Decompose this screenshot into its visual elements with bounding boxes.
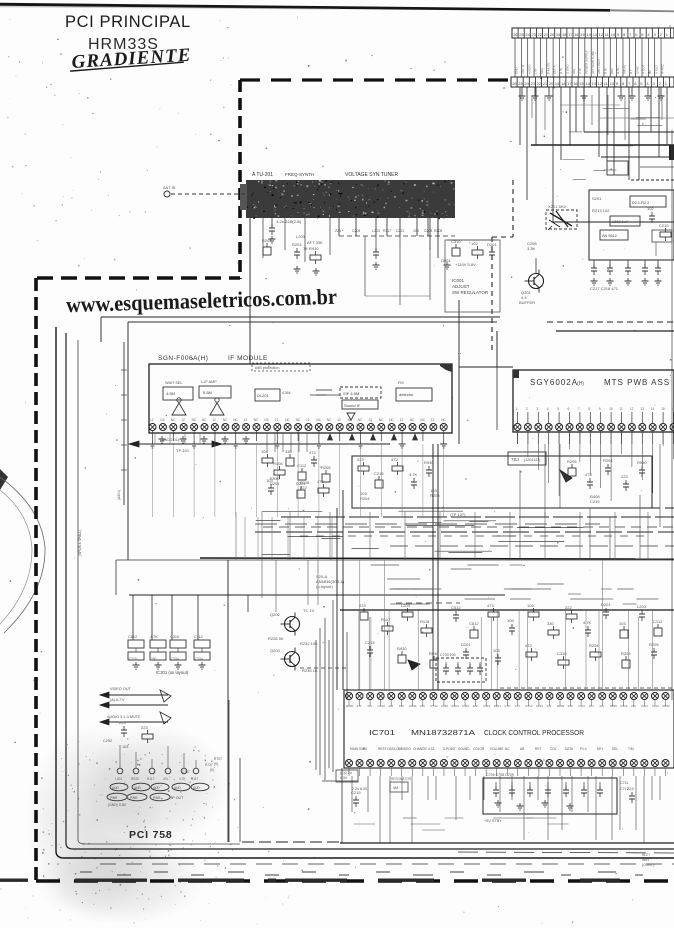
svg-text:COLOR: COLOR xyxy=(473,747,485,751)
svg-text:223: 223 xyxy=(359,603,366,608)
svg-text:VOLUME: VOLUME xyxy=(490,747,503,751)
svg-text:22: 22 xyxy=(537,81,542,86)
svg-text:VIDEO OUT: VIDEO OUT xyxy=(110,687,132,691)
svg-text:CLOCK CONTROL PROCESSOR: CLOCK CONTROL PROCESSOR xyxy=(484,728,584,737)
svg-text:4.3Z: 4.3Z xyxy=(428,747,434,751)
svg-text:(A301): (A301) xyxy=(117,490,121,500)
svg-text:C215: C215 xyxy=(659,223,669,228)
svg-text:VOL R: VOL R xyxy=(521,64,525,74)
svg-text:12: 12 xyxy=(306,418,310,422)
svg-text:24: 24 xyxy=(525,32,530,37)
svg-text:26: 26 xyxy=(512,81,517,86)
svg-text:472: 472 xyxy=(391,457,398,462)
svg-text:PWR: PWR xyxy=(153,796,161,800)
svg-text:12: 12 xyxy=(212,418,216,422)
svg-text:SW AV: SW AV xyxy=(623,65,627,74)
svg-text:(K): (K) xyxy=(214,762,218,766)
svg-text:12: 12 xyxy=(598,81,603,86)
svg-text:R117: R117 xyxy=(641,704,648,708)
svg-text:13: 13 xyxy=(640,407,644,411)
svg-text:R117: R117 xyxy=(147,777,155,781)
svg-text:NC: NC xyxy=(171,418,176,422)
svg-text:5: 5 xyxy=(557,407,559,411)
svg-text:D201: D201 xyxy=(461,642,471,647)
svg-text:14: 14 xyxy=(651,407,655,411)
svg-text:(H): (H) xyxy=(577,381,584,387)
svg-text:L203: L203 xyxy=(637,604,647,609)
svg-text:223: 223 xyxy=(141,725,148,730)
svg-text:DEF: DEF xyxy=(610,68,614,74)
svg-text:R930: R930 xyxy=(663,704,671,708)
svg-text:C204: C204 xyxy=(171,657,179,661)
svg-text:C204: C204 xyxy=(352,229,360,233)
svg-text:3: 3 xyxy=(536,407,538,411)
svg-text:13: 13 xyxy=(593,32,598,37)
svg-text:19: 19 xyxy=(555,81,560,86)
svg-text:IC001: IC001 xyxy=(452,278,465,283)
svg-text:AN 5512: AN 5512 xyxy=(602,234,617,238)
svg-text:ADJUST: ADJUST xyxy=(452,284,470,289)
svg-text:R408: R408 xyxy=(273,461,283,466)
svg-text:R205: R205 xyxy=(321,465,331,470)
svg-text:C310: C310 xyxy=(378,704,386,708)
svg-text:14: 14 xyxy=(585,81,590,86)
svg-text:C204: C204 xyxy=(195,657,203,661)
svg-text:NC: NC xyxy=(441,418,446,422)
svg-text:R712: R712 xyxy=(525,704,533,708)
svg-text:KEY: KEY xyxy=(597,747,604,751)
svg-text:R204: R204 xyxy=(409,704,417,708)
svg-text:25: 25 xyxy=(518,81,523,86)
svg-text:102: 102 xyxy=(471,241,478,246)
svg-text:4.7K: 4.7K xyxy=(150,635,158,639)
svg-text:C112: C112 xyxy=(297,463,307,468)
svg-text:473: 473 xyxy=(515,704,520,708)
svg-text:19: 19 xyxy=(556,32,561,37)
svg-text:C310: C310 xyxy=(129,657,137,661)
svg-text:78: 78 xyxy=(303,246,308,251)
svg-text:GND: GND xyxy=(515,67,519,75)
svg-text:8: 8 xyxy=(588,407,590,411)
svg-text:473: 473 xyxy=(317,479,324,484)
svg-text:12: 12 xyxy=(368,418,372,422)
svg-text:C112: C112 xyxy=(652,704,659,708)
svg-text:PCI PRINCIPAL: PCI PRINCIPAL xyxy=(65,13,191,31)
svg-text:IC701: IC701 xyxy=(369,728,395,737)
svg-text:+5V STBY: +5V STBY xyxy=(484,819,502,823)
svg-text:12: 12 xyxy=(150,418,154,422)
svg-text:SGY6002A: SGY6002A xyxy=(530,378,578,387)
svg-text:NC: NC xyxy=(285,418,290,422)
svg-text:S.POINT: S.POINT xyxy=(443,747,456,751)
svg-text:L IN: L IN xyxy=(534,69,538,74)
svg-text:103: 103 xyxy=(493,648,500,653)
svg-text:IC201 (on layout): IC201 (on layout) xyxy=(156,670,189,675)
svg-text:C310: C310 xyxy=(441,704,449,708)
svg-text:10: 10 xyxy=(610,81,615,86)
svg-text:6dB protection: 6dB protection xyxy=(255,366,280,370)
svg-text:C703 100: C703 100 xyxy=(440,653,456,657)
svg-text:MTS PWB ASS: MTS PWB ASS xyxy=(604,378,670,387)
svg-text:11: 11 xyxy=(620,407,624,411)
svg-text:NC: NC xyxy=(379,418,384,422)
svg-text:Sound IF: Sound IF xyxy=(344,403,361,408)
svg-text:47u: 47u xyxy=(367,704,372,708)
svg-text:12: 12 xyxy=(181,418,185,422)
svg-text:AUDIO: AUDIO xyxy=(527,64,531,74)
svg-text:RST: RST xyxy=(535,747,541,751)
svg-text:473: 473 xyxy=(525,643,532,648)
svg-text:D201: D201 xyxy=(494,704,502,708)
svg-text:C252: C252 xyxy=(103,739,112,743)
svg-text:12: 12 xyxy=(337,418,341,422)
svg-text:C310: C310 xyxy=(462,704,470,708)
svg-text:AUD: AUD xyxy=(193,786,200,790)
svg-text:C221: C221 xyxy=(536,704,544,708)
svg-text:C215: C215 xyxy=(590,499,600,504)
svg-text:ANT IN: ANT IN xyxy=(163,186,176,190)
svg-text:47u: 47u xyxy=(163,777,169,781)
svg-text:473: 473 xyxy=(585,472,592,477)
svg-text:14: 14 xyxy=(586,32,591,37)
svg-text:R117: R117 xyxy=(381,617,391,622)
svg-text:C215: C215 xyxy=(365,640,375,645)
svg-text:P5: P5 xyxy=(363,747,367,751)
svg-text:4M: 4M xyxy=(393,786,398,790)
svg-text:R204: R204 xyxy=(262,238,272,243)
svg-text:V IN: V IN xyxy=(578,68,582,74)
svg-text:R117: R117 xyxy=(383,229,391,233)
svg-text:23: 23 xyxy=(532,32,537,37)
svg-text:VOLTAGE SYN TUNER: VOLTAGE SYN TUNER xyxy=(345,172,398,178)
svg-text:Q202: Q202 xyxy=(270,612,281,617)
svg-text:21: 21 xyxy=(544,32,549,37)
svg-text:15: 15 xyxy=(580,32,585,37)
svg-text:330: 330 xyxy=(399,704,404,708)
svg-text:473: 473 xyxy=(487,603,494,608)
svg-text:C512: C512 xyxy=(469,621,479,626)
svg-text:R235 1K: R235 1K xyxy=(302,668,318,673)
svg-text:15: 15 xyxy=(579,81,584,86)
svg-text:4.7K: 4.7K xyxy=(583,620,592,625)
svg-text:NC: NC xyxy=(223,418,228,422)
svg-text:103: 103 xyxy=(122,745,128,749)
svg-text:AB: AB xyxy=(520,747,524,751)
svg-text:(TP 107): (TP 107) xyxy=(450,512,466,517)
svg-text:PWR: PWR xyxy=(110,796,118,800)
svg-text:AUDIO 3.1-3 MUTE: AUDIO 3.1-3 MUTE xyxy=(107,715,141,719)
svg-text:IF MODULE: IF MODULE xyxy=(228,355,268,362)
svg-text:18: 18 xyxy=(562,32,567,37)
svg-text:D2.1-R2.2: D2.1-R2.2 xyxy=(632,201,649,205)
svg-text:R205: R205 xyxy=(649,642,659,647)
svg-text:NC: NC xyxy=(233,418,238,422)
svg-text:PCI 758: PCI 758 xyxy=(129,829,173,841)
svg-text:NC: NC xyxy=(254,418,259,422)
svg-text:1-2x-22A(2-B): 1-2x-22A(2-B) xyxy=(276,219,302,224)
svg-text:AUD: AUD xyxy=(134,786,141,790)
svg-text:R204: R204 xyxy=(603,458,613,463)
svg-text:PWR: PWR xyxy=(130,796,138,800)
svg-text:330: 330 xyxy=(568,704,573,708)
svg-text:P1.0: P1.0 xyxy=(580,747,587,751)
svg-text:AUD: AUD xyxy=(112,786,119,790)
svg-text:C221: C221 xyxy=(396,229,404,233)
svg-text:R IN: R IN xyxy=(559,68,563,74)
svg-text:FM: FM xyxy=(398,381,403,385)
svg-text:R205: R205 xyxy=(557,704,565,708)
svg-text:G IN: G IN xyxy=(616,68,620,74)
svg-text:16: 16 xyxy=(574,32,579,37)
svg-text:S201: S201 xyxy=(592,196,602,201)
svg-text:222: 222 xyxy=(300,485,307,490)
svg-text:AFT 33K: AFT 33K xyxy=(307,240,323,245)
svg-text:IF AGC: IF AGC xyxy=(661,63,665,74)
svg-text:DL201: DL201 xyxy=(257,393,270,398)
svg-text:C112: C112 xyxy=(194,635,203,639)
svg-text:NC: NC xyxy=(202,418,207,422)
svg-text:7: 7 xyxy=(578,407,580,411)
svg-text:12: 12 xyxy=(431,418,435,422)
svg-text:26: 26 xyxy=(513,32,518,37)
svg-text:12: 12 xyxy=(275,418,279,422)
svg-text:R205: R205 xyxy=(567,459,577,464)
svg-text:R226 5K: R226 5K xyxy=(268,636,284,641)
svg-text:223: 223 xyxy=(627,786,634,791)
svg-text:105: 105 xyxy=(507,618,514,623)
svg-text:6.3V: 6.3V xyxy=(340,776,348,780)
svg-text:24: 24 xyxy=(524,81,529,86)
svg-text:R930: R930 xyxy=(610,704,618,708)
svg-text:R930: R930 xyxy=(397,646,407,651)
svg-text:TC 1V: TC 1V xyxy=(303,608,315,613)
svg-text:R205: R205 xyxy=(346,704,354,708)
svg-text:104: 104 xyxy=(261,449,268,454)
svg-text:L-IF AMP: L-IF AMP xyxy=(201,380,217,384)
svg-text:NC: NC xyxy=(410,418,415,422)
svg-text:105: 105 xyxy=(420,704,425,708)
svg-text:R205: R205 xyxy=(621,651,631,656)
svg-text:R204: R204 xyxy=(292,242,302,247)
svg-text:1: 1 xyxy=(516,407,518,411)
svg-text:13: 13 xyxy=(592,81,597,86)
svg-text:SP OUT: SP OUT xyxy=(170,796,184,800)
svg-text:5.5M: 5.5M xyxy=(203,390,212,395)
svg-text:KEY A: KEY A xyxy=(553,65,557,74)
svg-text:C707: C707 xyxy=(182,770,190,774)
svg-text:R232 100: R232 100 xyxy=(300,641,318,646)
svg-text:102: 102 xyxy=(647,206,654,211)
svg-text:2: 2 xyxy=(526,407,528,411)
svg-text:R204: R204 xyxy=(360,496,370,501)
svg-text:NC: NC xyxy=(420,418,425,422)
svg-text:25: 25 xyxy=(519,32,524,37)
svg-text:R118: R118 xyxy=(420,619,430,624)
svg-text:C512: C512 xyxy=(620,704,628,708)
svg-text:(GND) S.B2: (GND) S.B2 xyxy=(108,803,126,807)
svg-text:C512: C512 xyxy=(128,635,137,639)
svg-text:104: 104 xyxy=(589,704,594,708)
svg-text:AUD: AUD xyxy=(174,786,181,790)
svg-text:TP-101: TP-101 xyxy=(176,448,190,453)
svg-text:TIM: TIM xyxy=(628,747,634,751)
svg-text:SOUND: SOUND xyxy=(458,747,470,751)
svg-text:7SJ: 7SJ xyxy=(511,457,519,462)
svg-text:CHANGE: CHANGE xyxy=(413,747,427,751)
svg-text:SDA: SDA xyxy=(540,68,544,74)
svg-text:21: 21 xyxy=(543,81,548,86)
svg-text:C711: C711 xyxy=(620,781,628,785)
svg-text:103: 103 xyxy=(619,621,626,626)
svg-text:R213 102: R213 102 xyxy=(592,208,610,213)
svg-text:R205: R205 xyxy=(430,493,440,498)
svg-text:NC: NC xyxy=(505,747,510,751)
svg-text:NC: NC xyxy=(264,418,269,422)
svg-text:12: 12 xyxy=(244,418,248,422)
svg-text:C512: C512 xyxy=(451,605,461,610)
svg-text:R712: R712 xyxy=(430,704,438,708)
svg-text:SCL: SCL xyxy=(572,68,576,74)
svg-text:X201 5H2: X201 5H2 xyxy=(548,204,567,209)
svg-text:SIF 4.5M: SIF 4.5M xyxy=(343,391,359,396)
svg-text:SEL: SEL xyxy=(612,747,618,751)
svg-text:AFT MAIN TUNE: AFT MAIN TUNE xyxy=(591,51,595,74)
svg-text:222: 222 xyxy=(565,605,572,610)
svg-text:L202 1uH: L202 1uH xyxy=(612,220,629,224)
svg-text:15: 15 xyxy=(661,407,665,411)
svg-text:D001: D001 xyxy=(441,258,451,263)
svg-text:L203: L203 xyxy=(296,234,306,239)
svg-text:R930: R930 xyxy=(309,246,319,251)
svg-text:12: 12 xyxy=(599,32,604,37)
svg-text:V OUT: V OUT xyxy=(654,65,658,74)
svg-text:16: 16 xyxy=(573,81,578,86)
svg-text:C215: C215 xyxy=(351,790,361,795)
svg-text:4: 4 xyxy=(547,407,549,411)
svg-text:SW REGULATOR: SW REGULATOR xyxy=(452,290,489,295)
svg-text:R204: R204 xyxy=(452,704,460,708)
svg-text:S GND: S GND xyxy=(565,64,569,74)
svg-text:DATA: DATA xyxy=(565,747,574,751)
svg-text:330: 330 xyxy=(151,657,157,661)
svg-text:R930: R930 xyxy=(429,651,439,656)
svg-text:POWER SUPPLY: POWER SUPPLY xyxy=(584,50,588,74)
svg-text:NC: NC xyxy=(358,418,363,422)
svg-text:R930: R930 xyxy=(131,777,139,781)
svg-text:(p.layout): (p.layout) xyxy=(316,584,333,589)
svg-text:51C?: 51C? xyxy=(642,853,650,857)
svg-text:NC: NC xyxy=(348,418,353,422)
svg-text:NC: NC xyxy=(192,418,197,422)
svg-text:A TU-201: A TU-201 xyxy=(252,172,273,178)
svg-text:ABL LIGHT: ABL LIGHT xyxy=(597,59,601,74)
svg-text:472: 472 xyxy=(546,704,551,708)
svg-text:R204: R204 xyxy=(589,643,599,648)
svg-text:4.5M: 4.5M xyxy=(282,391,290,395)
svg-text:10: 10 xyxy=(609,407,613,411)
svg-text:12: 12 xyxy=(400,418,404,422)
svg-text:BUFFER: BUFFER xyxy=(519,300,535,305)
svg-text:C215: C215 xyxy=(374,471,384,476)
svg-text:10: 10 xyxy=(611,32,616,37)
svg-text:WAY: WAY xyxy=(642,858,650,862)
svg-text:AUD: AUD xyxy=(153,786,160,790)
svg-text:6: 6 xyxy=(568,407,570,411)
svg-text:NC: NC xyxy=(160,418,165,422)
svg-text:R707: R707 xyxy=(214,757,222,761)
svg-text:(SPL/B & SPALL): (SPL/B & SPALL) xyxy=(78,530,82,556)
svg-text:(K): (K) xyxy=(210,768,214,772)
svg-text:SGN-F006A(H): SGN-F006A(H) xyxy=(158,355,208,362)
svg-text:+115V 5.8V: +115V 5.8V xyxy=(455,262,476,267)
svg-text:P-MUTE: P-MUTE xyxy=(546,63,550,75)
svg-text:472: 472 xyxy=(309,450,316,455)
svg-text:C112: C112 xyxy=(653,619,663,624)
svg-text:105: 105 xyxy=(413,229,419,233)
svg-text:C310: C310 xyxy=(483,704,491,708)
svg-text:222: 222 xyxy=(388,704,393,708)
svg-text:330: 330 xyxy=(631,704,636,708)
svg-text:R737: R737 xyxy=(205,763,213,767)
svg-text:20: 20 xyxy=(549,81,554,86)
svg-text:WAIT SEL: WAIT SEL xyxy=(165,381,183,385)
svg-text:R117: R117 xyxy=(191,777,199,781)
svg-text:223: 223 xyxy=(119,720,126,725)
svg-text:105: 105 xyxy=(527,603,534,608)
svg-text:B IN: B IN xyxy=(604,68,608,74)
svg-text:20: 20 xyxy=(550,32,555,37)
svg-text:S.VIDEO: S.VIDEO xyxy=(398,747,411,751)
svg-text:(2204122): (2204122) xyxy=(524,458,540,462)
svg-text:SYNC: SYNC xyxy=(635,65,639,74)
svg-text:18: 18 xyxy=(561,81,566,86)
svg-text:MN18732871A: MN18732871A xyxy=(411,728,475,737)
svg-text:NC: NC xyxy=(389,418,394,422)
svg-text:22: 22 xyxy=(538,32,543,37)
svg-text:4.7K: 4.7K xyxy=(409,472,418,477)
svg-text:23: 23 xyxy=(531,81,536,86)
svg-text:NC: NC xyxy=(316,418,321,422)
svg-text:9: 9 xyxy=(599,407,601,411)
svg-text:4.7K: 4.7K xyxy=(179,777,186,781)
svg-text:C204: C204 xyxy=(424,229,432,233)
svg-text:12: 12 xyxy=(630,407,634,411)
svg-text:4.5M: 4.5M xyxy=(166,391,175,396)
svg-text:47u: 47u xyxy=(599,704,604,708)
svg-text:330: 330 xyxy=(285,449,292,454)
svg-text:D201: D201 xyxy=(270,481,280,486)
svg-text:223: 223 xyxy=(335,229,341,233)
svg-text:330: 330 xyxy=(547,621,554,626)
svg-text:L203: L203 xyxy=(115,777,122,781)
svg-text:H OUT: H OUT xyxy=(642,65,646,75)
svg-text:472: 472 xyxy=(357,704,362,708)
svg-text:(CONT.): (CONT.) xyxy=(642,863,654,867)
svg-text:3.3K: 3.3K xyxy=(527,246,536,251)
svg-text:17: 17 xyxy=(567,81,572,86)
svg-text:C217 C218 471: C217 C218 471 xyxy=(590,286,619,291)
svg-text:222: 222 xyxy=(473,704,478,708)
svg-text:17: 17 xyxy=(568,32,573,37)
svg-text:223: 223 xyxy=(621,474,628,479)
svg-text:C310: C310 xyxy=(170,635,179,639)
svg-text:C112: C112 xyxy=(578,704,585,708)
svg-text:NC: NC xyxy=(327,418,332,422)
svg-text:FREQ-SYNTH: FREQ-SYNTH xyxy=(285,172,314,177)
svg-text:L203: L203 xyxy=(372,229,380,233)
svg-text:NC: NC xyxy=(296,418,301,422)
svg-text:RESONATOR: RESONATOR xyxy=(391,777,412,781)
